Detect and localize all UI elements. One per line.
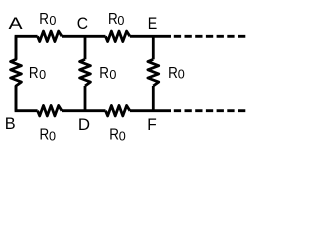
resistor R0 (top left, A-C) xyxy=(38,31,62,41)
value label R0 (bottom left) xyxy=(40,127,57,144)
wire: top rail R2 past node E xyxy=(130,35,171,38)
svg-text:A: A xyxy=(9,15,23,33)
resistor R0 (vertical E-F) xyxy=(148,59,159,86)
svg-text:C: C xyxy=(77,15,88,33)
svg-text:F: F xyxy=(147,117,157,135)
value label R0 (top right) xyxy=(108,11,124,28)
wire: vertical C-D lower stub xyxy=(84,86,87,111)
value label R0 (middle right) xyxy=(168,65,185,82)
svg-text:0: 0 xyxy=(117,14,124,28)
wire: bottom rail R4 past node F xyxy=(130,109,171,112)
svg-text:E: E xyxy=(148,15,157,33)
svg-text:R: R xyxy=(168,65,178,82)
wire: top dashed continuation xyxy=(174,35,246,38)
wire: vertical E-F upper stub xyxy=(152,36,155,59)
svg-text:D: D xyxy=(78,115,90,134)
svg-text:R: R xyxy=(29,65,39,82)
resistor R0 (top right, C-E) xyxy=(106,31,130,41)
wire: vertical C-D upper stub xyxy=(84,36,87,59)
svg-text:0: 0 xyxy=(119,129,126,143)
resistor R0 (vertical A-B) with stub wires xyxy=(11,36,22,110)
resistor R0 (vertical C-D) xyxy=(80,59,91,86)
value label R0 (top left) xyxy=(39,11,56,28)
resistor R0 (bottom left, B-D) xyxy=(38,105,62,115)
svg-text:R: R xyxy=(99,65,109,82)
resistor R0 (bottom right, D-F) xyxy=(106,105,130,115)
svg-text:0: 0 xyxy=(49,14,56,28)
svg-text:R: R xyxy=(39,11,49,28)
wire: bottom dashed continuation xyxy=(174,109,246,112)
svg-text:0: 0 xyxy=(178,68,185,82)
value label R0 (middle center) xyxy=(99,65,116,82)
svg-text:0: 0 xyxy=(49,129,56,143)
svg-text:0: 0 xyxy=(109,68,116,82)
wire: vertical E-F lower stub xyxy=(152,86,155,111)
value label R0 (bottom right) xyxy=(109,127,126,144)
wire: bottom rail R3 to R4 through node D xyxy=(62,109,106,112)
svg-text:R: R xyxy=(109,127,119,144)
svg-text:R: R xyxy=(108,11,118,28)
svg-text:B: B xyxy=(5,115,16,133)
svg-text:R: R xyxy=(40,127,50,144)
wire: top rail R1 to R2 through node C xyxy=(62,35,106,38)
wire: node B corner, bottom rail to R3 xyxy=(16,86,38,111)
svg-text:0: 0 xyxy=(39,68,46,82)
wire: node A corner, top rail to R1 xyxy=(16,36,38,59)
value label R0 (middle left) xyxy=(29,65,46,82)
